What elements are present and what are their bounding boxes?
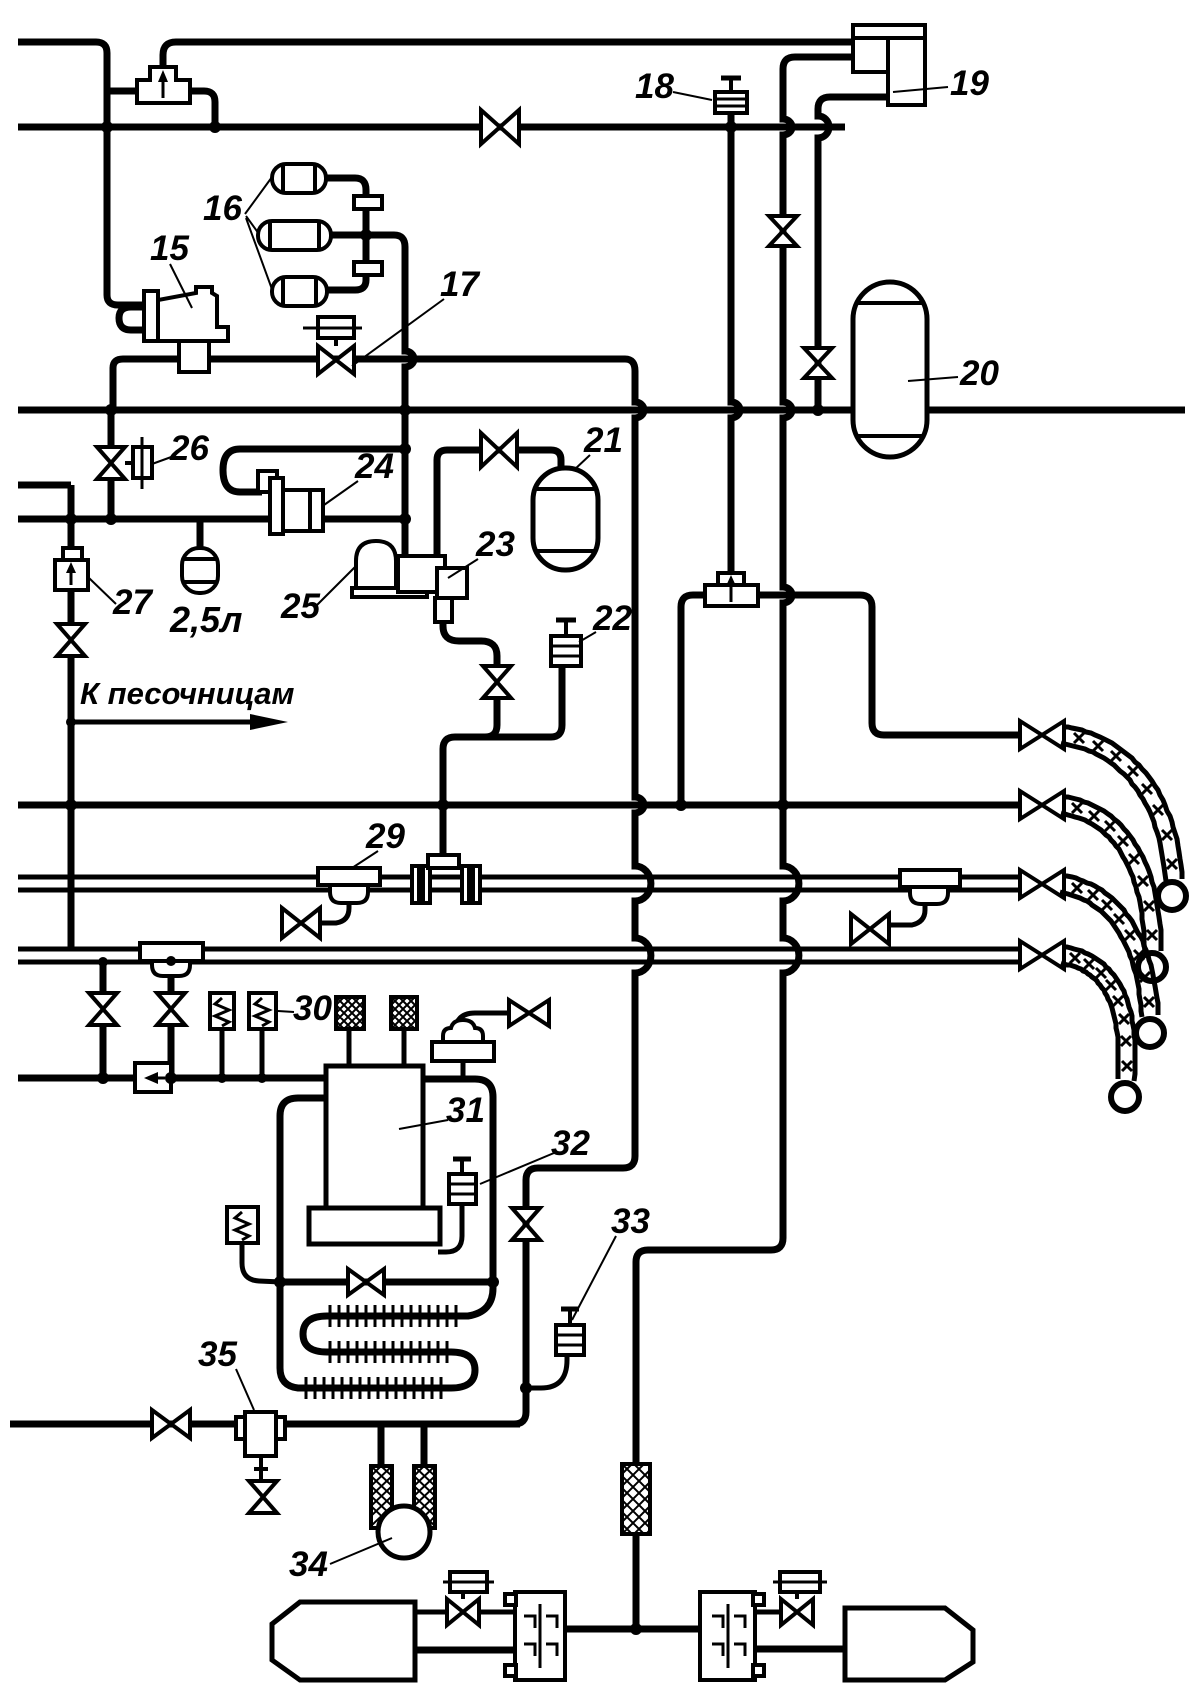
wire L4 stub [18,482,71,489]
cock on line to reservoir 21 [481,433,517,467]
release valve right [781,1599,813,1625]
tee 29 bar [318,868,380,885]
wire branch x103 from L8 to L10 [100,962,107,1078]
wire right tee drain stem [889,902,925,925]
wire check valve CV1 right stub down to L2 [190,91,215,127]
wire to maintaining valve 33 [526,1355,567,1388]
check valve on L10 [135,1063,171,1092]
wire cooling enclosure right side into coil run1 [423,1079,493,1316]
electropneumatic valve 15 plate [144,291,158,341]
reservoir 2.5l [182,548,218,593]
brake cylinder left [272,1602,415,1680]
wire spring box 30a stem [220,1029,225,1078]
wire governor spring box drop [242,1243,281,1282]
compressor 31 base [309,1208,440,1244]
gauge valve 18 stem [729,80,733,92]
wire riser-26 lower [108,477,115,519]
wire safety valve discharge pipe [455,1013,509,1030]
reservoir 16c [272,277,327,306]
valve 17 actuator stem [334,338,338,346]
wire loop from x405 to oil separator 24 [223,449,405,492]
spring box 30a [210,993,234,1029]
drain valve below 35 [249,1481,277,1513]
wire drain cock to manifold-737 [485,696,497,737]
wire left cylinder to release valve [415,1610,447,1615]
drain cock below 23 [483,666,511,698]
svg-text:15: 15 [150,229,189,268]
wire 19 tab to riser x818 down to L3 [818,97,888,410]
stop valve on riser x783 [769,216,797,246]
svg-text:35: 35 [198,1335,237,1374]
wire left sand riser upper [68,485,75,560]
release valve left stem [461,1592,465,1599]
connecting hose 4 [1061,963,1118,1079]
wire check valve CV1 left stub [107,88,137,95]
radiator fins [306,1305,456,1399]
pressure switch 35 stem tick [254,1467,268,1471]
compressor governor 23 side box [437,568,467,598]
wire check valve CV2 right to hose1 [758,595,1020,735]
svg-text:31: 31 [446,1091,485,1130]
end cock (hose 1) [1020,721,1064,749]
cock on riser-26 [97,447,125,479]
wire down-pipe left to motor 34 [378,1424,385,1466]
disconnect valve 17 [318,346,354,374]
safety valve dome [443,1020,483,1042]
air distributor left tabs [505,1594,516,1605]
hose 2 end fitting [1138,953,1166,981]
unloader 32 stem [460,1161,464,1174]
maintaining valve 33 stem [568,1311,572,1325]
cock on L11 [152,1410,190,1438]
pressure reducer 22 stem [564,622,568,636]
check valve CV1 body [137,67,190,103]
cut-off cock on tee branch [157,993,185,1025]
air distributor left internals [524,1604,557,1668]
air distributor right tabs [753,1594,764,1605]
wire tank16a pipe to manifold [326,178,366,198]
governor spring box [227,1207,258,1243]
svg-text:24: 24 [354,447,394,486]
wire L11 compressor discharge line [10,1421,520,1428]
air distributor right body [700,1592,755,1680]
right tee dome [910,887,948,904]
svg-text:34: 34 [289,1545,328,1584]
wire L3 main reservoir line [18,407,1185,414]
check valve 27 step [63,548,82,560]
check valve 27 arrow [70,570,73,585]
svg-text:18: 18 [635,67,674,106]
svg-text:33: 33 [611,1202,650,1241]
unloader 32 body [449,1174,476,1204]
reservoir 16a [272,164,326,193]
wire 18 stem to L2 [728,113,735,127]
compressor governor 23 body [398,556,445,592]
connecting hose 3 [1060,892,1142,1017]
discharge cock [509,1000,549,1026]
main reservoir 20 [853,282,927,457]
wire line-359 brake-valve line and long vertical to bottom unloader piping [208,359,651,1424]
svg-text:К песочницам: К песочницам [80,676,294,711]
compressor governor 23 foot [435,598,452,622]
wire spring box 30b stem [260,1029,265,1078]
wire center drop filter to relay pipe [633,1534,640,1629]
wire L7 brake pipe double line [18,877,1020,890]
wire long riser 18/L2 to brake feed check valve with hop at L3 [731,127,740,575]
L8 tee dome [152,961,190,976]
wire L10 compressor suction line [18,1075,326,1082]
svg-text:30: 30 [293,989,332,1028]
motor 34 [378,1506,430,1558]
release valve left [447,1599,479,1625]
hose 3 end fitting [1136,1019,1164,1047]
gauge valve 18 body [715,92,747,113]
wire left sand riser middle [68,590,75,624]
wire L8 feed pipe double line [18,949,1020,962]
svg-text:23: 23 [475,525,515,564]
compressor 31 body [326,1066,423,1208]
throttle 26 pin [141,437,144,489]
pressure regulator 25 base [352,588,427,597]
wire left sand riser lower [68,656,75,949]
bypass valve [348,1269,384,1295]
pressure reducer 22 body [551,636,581,666]
L8 tee bar [140,943,203,961]
compressor regulator 19 body [853,25,925,105]
brake cylinder right [845,1608,973,1680]
check valve CV2 step [718,573,744,585]
check valve 27 body [55,560,88,590]
wire 19 to riser x783 down across sheet to bottom filter [636,57,853,1464]
end cock (hose 4) [1020,941,1064,969]
right tee bar [900,870,960,887]
svg-text:19: 19 [950,64,989,103]
coupling hose right [414,1466,435,1528]
svg-text:22: 22 [592,599,632,638]
maintaining valve 33 body [556,1325,584,1355]
wire left cylinder lower pipe [415,1647,515,1654]
cut-off cock on branch x103 [89,993,117,1025]
wire left release valve to distributor [479,1610,515,1615]
air distributor right internals [712,1604,745,1668]
hose 4 end fitting [1111,1083,1139,1111]
wire 2.5l reservoir stem [197,519,204,548]
wire intake filter a stem [347,1029,352,1066]
intake filter b [391,997,417,1029]
wire safety valve stem [461,1061,466,1080]
drain cock at right tee [851,914,889,944]
wire L6 independent brake line [18,802,1020,809]
wire L1 top feed line right segment from check valve to 19 [163,42,853,69]
release valve right box [780,1572,820,1592]
wire intake filter b stem [402,1029,407,1066]
throttle 26 stub [125,461,133,465]
coupler sleeve lower [354,262,382,275]
wire L5 compressor delivery line [18,516,405,523]
wire 35 drain stem [259,1456,263,1479]
hose coupling cap [428,855,459,868]
svg-text:32: 32 [551,1124,590,1163]
safety valve plate [432,1042,494,1061]
wire tank manifold lower to tank16c [327,273,366,290]
coupler sleeve upper [354,196,382,209]
wire L1 top feed line left segment with elbow into riser [18,42,144,305]
wire EPK U-loop [119,307,144,330]
wire riser-26 upper [108,410,115,449]
wire right distributor to release valve [755,1610,781,1615]
svg-text:27: 27 [112,583,153,622]
connecting hose 2 [1061,813,1145,951]
wire riser x405 from L3 down to governor 23 [402,410,409,556]
air reservoir 21 [533,468,598,570]
wire 23 drain elbow [443,620,497,666]
valve 17 actuator box [318,317,354,338]
coupling hose left [371,1466,392,1528]
check valve CV2 body [705,585,758,606]
drain cock at tee 29 [282,908,320,938]
check valve CV1 arrow [162,79,165,98]
wire L2 second feed line [18,124,845,131]
end cock (hose 2) [1020,791,1064,819]
intake filter a [336,997,364,1029]
wire tee29 drain stem [322,901,349,923]
valve on L2 [481,110,519,144]
stop valve below 27 [57,624,85,656]
svg-text:21: 21 [583,421,623,460]
pressure switch 35 body [245,1412,276,1456]
svg-text:25: 25 [280,587,320,626]
tee 29 dome [330,885,368,903]
end cock (hose 3) [1020,870,1064,898]
oil separator 24 flag [258,471,283,492]
throttle 26 body [133,447,152,478]
wire L8 tee stem [168,974,175,991]
valve 17 actuator line [303,327,362,330]
electropneumatic valve 15 pedestal [179,341,209,372]
wire manifold-737 to riser down to L6/L7 coupling [443,737,551,860]
air distributor left body [515,1592,565,1680]
spring box 30b [249,993,276,1029]
center line filter [622,1464,650,1534]
check valve CV2 arrow [730,583,733,602]
svg-text:2,5л: 2,5л [169,599,242,640]
wire sanding arrow line [71,720,258,725]
wire L8 tee branch to L10 [168,1027,175,1078]
wire tank manifold middle [363,208,370,263]
wire line-359 left elbow from L3 [113,359,180,410]
svg-text:26: 26 [169,429,209,468]
wire unloader 32 drain [438,1204,462,1252]
svg-text:17: 17 [440,265,480,304]
release valve left box [450,1572,487,1592]
oil separator 24 body [270,478,283,534]
wire 23 to cock to reservoir 21 [437,450,561,556]
pressure switch 35 ears [236,1417,245,1439]
wire right distributor lower pipe to cylinder [755,1646,845,1653]
wire manifold-737 riser to valve 22 [551,664,562,737]
reservoir 16b [258,221,331,250]
hose 1 end fitting [1158,882,1186,910]
release valve right stem [795,1592,799,1599]
pressure regulator 25 dome [356,541,396,588]
wire relay interconnect pipe [565,1626,700,1633]
svg-text:20: 20 [959,354,999,393]
svg-text:16: 16 [203,189,242,228]
cut-out valve on unloader line [512,1208,540,1240]
wire radiator coil serpentine [302,1316,475,1388]
connecting hose 1 [1061,743,1166,881]
svg-text:29: 29 [365,817,405,856]
wire cooling enclosure left side into coil run3 [280,1098,326,1388]
electropneumatic valve 15 body [158,287,228,341]
wire tank16b pipe and drop to L3 with hop over line-359 [331,235,414,410]
wire check valve CV2 left drop to L6 [681,595,705,805]
wire aftercooler bypass pipe [280,1279,493,1286]
hose coupling flanges [412,866,419,903]
wire down-pipe right to motor 34 [421,1424,428,1466]
sanding arrow head [250,714,288,730]
stop valve on riser x818 [804,348,832,378]
